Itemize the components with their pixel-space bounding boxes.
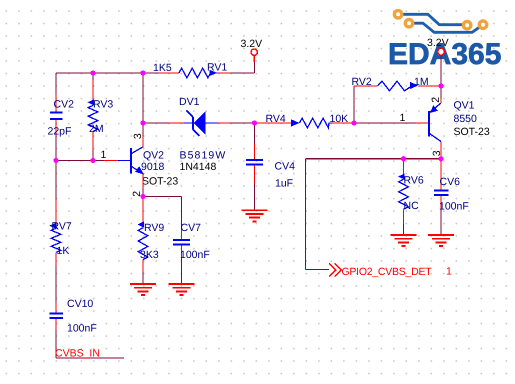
svg-text:B5819W: B5819W (180, 149, 227, 161)
wire left column (56, 73, 124, 358)
svg-text:10K: 10K (330, 113, 349, 125)
ground CV6 (428, 235, 454, 246)
svg-text:3K3: 3K3 (140, 249, 159, 261)
svg-text:RV1: RV1 (207, 62, 227, 74)
junction base row left (53, 158, 58, 163)
svg-text:3.2V: 3.2V (241, 38, 263, 50)
svg-text:QV2: QV2 (143, 149, 164, 161)
resistor RV4 (256, 113, 354, 128)
port GPIO2_CVBS_DET (329, 264, 452, 279)
logo pad 2 (405, 20, 412, 27)
svg-text:1K: 1K (57, 245, 70, 257)
wire bottom right row (306, 159, 442, 270)
net label CVBS_IN (55, 348, 100, 360)
resistor RV9 (138, 197, 165, 285)
junction RV6 tap (401, 156, 406, 161)
svg-text:9018: 9018 (141, 161, 165, 173)
svg-text:1K5: 1K5 (153, 62, 172, 74)
svg-text:DV1: DV1 (179, 96, 200, 108)
svg-text:RV2: RV2 (352, 76, 372, 88)
power 3.2V left (241, 38, 263, 62)
logo trace 1 (398, 14, 467, 24)
svg-text:CV6: CV6 (440, 176, 461, 188)
junction base row RV3 (90, 158, 95, 163)
svg-text:1: 1 (400, 112, 406, 124)
ground CV7 (169, 284, 195, 295)
svg-text:1N4148: 1N4148 (180, 161, 217, 173)
svg-text:22pF: 22pF (48, 126, 72, 138)
capacitor CV10 (50, 298, 97, 335)
resistor RV6 (398, 159, 424, 235)
junction DV1 row (140, 120, 145, 125)
svg-text:RV4: RV4 (266, 113, 286, 125)
resistor RV3 (88, 99, 114, 136)
transistor QV1 (400, 97, 490, 157)
svg-text:100nF: 100nF (180, 249, 210, 261)
svg-text:CV7: CV7 (181, 222, 202, 234)
svg-text:1uF: 1uF (275, 178, 293, 190)
wire QV1 collector (440, 142, 442, 159)
svg-text:NC: NC (404, 200, 420, 212)
svg-text:RV6: RV6 (404, 175, 424, 187)
capacitor CV2 (48, 99, 75, 138)
resistor RV7 (49, 221, 72, 258)
svg-text:CV2: CV2 (54, 99, 75, 111)
junction RV2 right (438, 83, 443, 88)
svg-text:SOT-23: SOT-23 (142, 176, 178, 188)
node QV2 emitter row (143, 197, 182, 285)
ground RV9 (130, 284, 156, 295)
wire RV3 column (92, 73, 94, 161)
capacitor CV6 (434, 159, 469, 235)
svg-text:QV1: QV1 (454, 100, 475, 112)
wire CV4 column (254, 123, 256, 210)
wire RV2 loop (354, 86, 378, 123)
junction QV2 emitter (140, 194, 145, 199)
svg-text:100nF: 100nF (67, 323, 97, 335)
logo pad 4 (479, 21, 486, 28)
svg-text:CV4: CV4 (275, 160, 296, 172)
svg-text:1: 1 (446, 266, 452, 278)
junction top rail QV2 (140, 70, 145, 75)
svg-text:CV10: CV10 (67, 298, 93, 310)
EDA365 logo (388, 11, 501, 71)
wire base row (56, 160, 118, 162)
svg-text:RV7: RV7 (52, 221, 72, 233)
diode DV1 (179, 96, 226, 173)
svg-text:SOT-23: SOT-23 (454, 126, 490, 138)
wire QV1 emitter (440, 86, 442, 103)
svg-text:8550: 8550 (454, 113, 478, 125)
junction QV1 collector (438, 156, 443, 161)
svg-text:100nF: 100nF (439, 201, 469, 213)
logo pad 1 (394, 11, 401, 18)
capacitor CV7 (173, 222, 210, 261)
power 3.2V right (427, 37, 449, 86)
svg-text:3.2V: 3.2V (427, 37, 449, 49)
wire top rail (56, 56, 255, 73)
wire DV1 row (143, 122, 255, 124)
svg-text:1: 1 (101, 149, 107, 161)
logo trace 2 (409, 23, 483, 32)
ground RV6 (391, 235, 417, 246)
svg-text:2M: 2M (89, 123, 104, 135)
svg-text:3: 3 (132, 133, 144, 139)
logo pad 3 (463, 22, 470, 29)
wire QV2 collector (142, 73, 144, 147)
capacitor CV4 (246, 160, 295, 190)
resistor RV1 (153, 62, 227, 78)
svg-text:1M: 1M (414, 76, 429, 88)
wire QV2 emitter (142, 174, 144, 197)
junction top rail RV3 (90, 70, 95, 75)
junction RV4 RV2 (351, 120, 356, 125)
svg-text:GPIO2_CVBS_DET: GPIO2_CVBS_DET (342, 266, 433, 278)
resistor RV2 (352, 76, 442, 91)
transistor QV2 (101, 133, 179, 197)
svg-text:RV9: RV9 (144, 222, 164, 234)
wire RV4 to QV1 (354, 122, 428, 124)
junction CV4 tap (252, 120, 257, 125)
ground CV4 (242, 210, 268, 221)
svg-text:RV3: RV3 (93, 99, 113, 111)
svg-text:CVBS_IN: CVBS_IN (55, 348, 100, 360)
